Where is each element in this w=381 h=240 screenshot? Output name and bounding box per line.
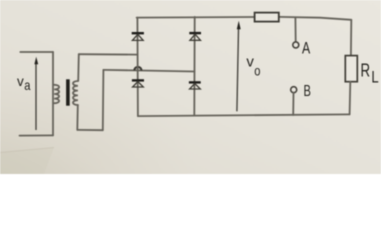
wire: secondary top horizontal to left bridge column bbox=[79, 53, 138, 55]
node A stub bbox=[294, 18, 296, 42]
label B bbox=[304, 83, 311, 100]
resistor RL bbox=[345, 56, 357, 82]
label A bbox=[302, 40, 310, 58]
svg-text:L: L bbox=[371, 68, 378, 87]
transformer secondary winding bbox=[73, 81, 78, 105]
svg-text:v: v bbox=[17, 74, 24, 89]
wire: jog vertical up bbox=[102, 70, 105, 130]
wire: top rail (bridge top to series resistor) bbox=[137, 16, 255, 19]
node A terminal bbox=[293, 42, 299, 48]
svg-text:v: v bbox=[246, 54, 254, 71]
svg-text:a: a bbox=[24, 77, 30, 93]
svg-text:B: B bbox=[304, 83, 311, 100]
wire: bottom rail bbox=[138, 114, 350, 116]
wire: bottom jog horizontal bbox=[77, 129, 103, 131]
svg-text:R: R bbox=[361, 59, 371, 80]
diode D3 (top right) bbox=[189, 33, 201, 40]
wire: va top terminal stub bbox=[20, 51, 53, 53]
voltage arrow vo bbox=[237, 21, 241, 112]
wire: bridge left column bbox=[136, 18, 139, 117]
svg-text:A: A bbox=[302, 40, 310, 58]
wire: right branch lower bbox=[349, 82, 352, 115]
label RL bbox=[361, 59, 379, 86]
page-edge shadow bbox=[0, 60, 260, 174]
wire: right branch upper bbox=[350, 20, 352, 56]
transformer core bbox=[66, 79, 70, 105]
source arrow va bbox=[34, 57, 38, 130]
svg-text:o: o bbox=[254, 62, 260, 78]
label vo bbox=[246, 54, 260, 79]
wire: transformer primary lead (right side of input loop) bbox=[52, 52, 54, 135]
label va bbox=[17, 74, 31, 93]
wire: va bottom terminal stub bbox=[20, 134, 54, 136]
diode D1 (top left) bbox=[132, 33, 144, 40]
wire: bridge right column bbox=[193, 17, 195, 116]
node B stub bbox=[292, 93, 294, 115]
wire: AC feed to right column with hop over left column bbox=[103, 67, 194, 72]
transformer T primary winding bbox=[54, 85, 59, 103]
wire: secondary bottom lead down bbox=[76, 105, 79, 130]
wire: secondary top lead up to corner bbox=[77, 54, 80, 81]
resistor (series, top rail) bbox=[255, 13, 279, 22]
diode D4 (bottom right) bbox=[189, 82, 201, 89]
wire: top rail (resistor to top-right corner) bbox=[279, 17, 352, 20]
diode D2 (bottom left) bbox=[132, 80, 144, 87]
node B terminal bbox=[291, 87, 297, 93]
